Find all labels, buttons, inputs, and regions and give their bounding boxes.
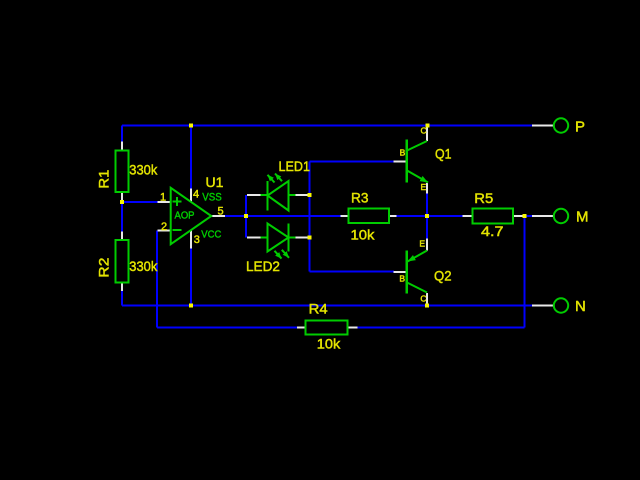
- svg-text:R1: R1: [95, 169, 111, 188]
- svg-text:10k: 10k: [351, 227, 376, 243]
- svg-text:M: M: [576, 208, 589, 225]
- svg-text:VCC: VCC: [201, 228, 221, 240]
- svg-text:4.7: 4.7: [481, 223, 504, 239]
- svg-text:VSS: VSS: [202, 192, 222, 204]
- svg-text:2: 2: [161, 221, 167, 233]
- svg-text:AOP: AOP: [175, 210, 195, 222]
- svg-text:E: E: [421, 182, 427, 192]
- svg-text:330k: 330k: [129, 258, 158, 274]
- svg-text:C: C: [420, 294, 426, 304]
- svg-text:Q1: Q1: [435, 146, 452, 162]
- svg-text:R3: R3: [351, 189, 369, 205]
- svg-text:C: C: [421, 126, 427, 136]
- svg-text:E: E: [419, 239, 425, 249]
- svg-text:1: 1: [160, 191, 166, 203]
- svg-text:330k: 330k: [129, 162, 158, 178]
- svg-text:U1: U1: [206, 174, 224, 190]
- svg-text:5: 5: [218, 205, 224, 217]
- svg-text:N: N: [575, 298, 586, 315]
- svg-text:4: 4: [193, 189, 199, 201]
- svg-text:R2: R2: [95, 257, 111, 277]
- svg-text:B: B: [400, 148, 406, 158]
- svg-text:B: B: [399, 273, 405, 283]
- svg-text:Q2: Q2: [434, 268, 452, 284]
- svg-text:10k: 10k: [317, 335, 342, 351]
- svg-text:P: P: [575, 118, 585, 135]
- svg-text:LED2: LED2: [246, 258, 280, 274]
- svg-text:LED1: LED1: [279, 158, 311, 174]
- svg-text:R5: R5: [474, 190, 493, 206]
- svg-text:3: 3: [194, 234, 200, 246]
- svg-text:R4: R4: [309, 300, 328, 316]
